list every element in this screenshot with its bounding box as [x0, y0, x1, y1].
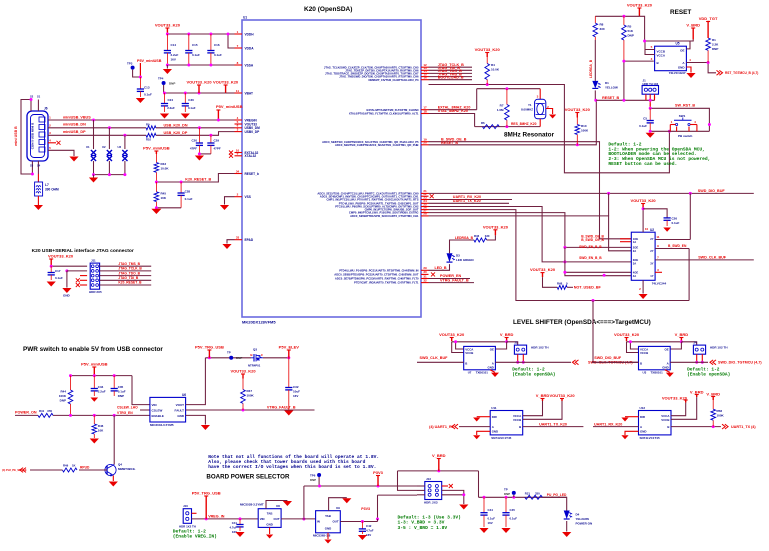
svg-text:0.1uF: 0.1uF [510, 517, 518, 521]
svg-text:390 OHM: 390 OHM [45, 188, 59, 192]
power flag VOUT33_K20 JTAG [50, 259, 52, 266]
svg-text:SN74LVC1T45: SN74LVC1T45 [640, 436, 660, 440]
svg-text:33: 33 [236, 236, 240, 240]
capacitor C20 47pF [198, 126, 201, 129]
svg-text:(Enable openSDA): (Enable openSDA) [512, 371, 555, 377]
wire U6 GND [186, 415, 206, 424]
wire top bus to U5 VCC [639, 16, 644, 41]
svg-text:1K: 1K [72, 464, 76, 468]
svg-text:HDR 1X2 TH: HDR 1X2 TH [179, 525, 196, 529]
svg-text:OE: OE [665, 347, 669, 351]
svg-text:B_SWD_OE_B: B_SWD_OE_B [581, 238, 604, 242]
connector J1 HDR TH 1X3 [642, 86, 658, 95]
wire U2 GND pin [642, 280, 644, 293]
svg-text:0.1uF: 0.1uF [672, 221, 680, 225]
svg-text:P5V_miniUSB: P5V_miniUSB [216, 104, 243, 109]
wire miniUSB_VBUS / VREGIN net [48, 119, 235, 121]
svg-text:10uF: 10uF [293, 390, 300, 394]
svg-text:16: 16 [423, 76, 427, 80]
svg-text:P5V_ELEV: P5V_ELEV [279, 345, 300, 350]
capacitor C32 10uF 16V [288, 358, 290, 388]
wire UART1_RX_K20 row [429, 199, 513, 201]
svg-text:D1: D1 [605, 81, 609, 85]
power flag VOUT33_K20 top bank [166, 28, 168, 34]
power flag P5V_miniUSB reset pullup [155, 151, 157, 154]
svg-text:4A: 4A [633, 274, 636, 278]
svg-text:DNP: DNP [236, 356, 242, 360]
ground C41 [235, 532, 244, 537]
svg-text:BOARD POWER SELECTOR: BOARD POWER SELECTOR [206, 473, 290, 480]
wire JTAG GND row [67, 270, 87, 272]
power flag P3V3 top [377, 476, 379, 487]
wire B input SWD_CLK_BUF [417, 361, 464, 363]
wire VCCA U12 [671, 403, 686, 416]
power flag VOUT33_K20 at R46 [494, 230, 496, 236]
wire TP3 to C13 [133, 70, 141, 77]
wires J13 right pins [442, 485, 448, 487]
svg-text:R48: R48 [557, 281, 563, 285]
svg-text:RESET button can be used.: RESET button can be used. [608, 161, 677, 167]
svg-text:10: 10 [645, 227, 649, 231]
svg-text:SWD_EN_B_B: SWD_EN_B_B [579, 245, 602, 249]
svg-text:C17: C17 [55, 269, 61, 273]
svg-text:VOUT33_K20: VOUT33_K20 [230, 369, 256, 374]
svg-text:CON 5 USB MINI B: CON 5 USB MINI B [31, 122, 35, 149]
wire 5V rail [205, 357, 251, 359]
svg-text:XTAL32: XTAL32 [245, 154, 257, 158]
wire VCCB drop U7 [452, 342, 464, 353]
svg-text:GND: GND [662, 365, 668, 369]
svg-text:(4) PJ2_PE_SENSE: (4) PJ2_PE_SENSE [2, 468, 27, 472]
capacitor C45 0.1uF [505, 497, 507, 512]
svg-text:VCCB: VCCB [661, 418, 669, 422]
svg-text:C32: C32 [293, 385, 299, 389]
svg-text:C16: C16 [214, 43, 220, 47]
svg-text:TP: TP [504, 488, 508, 492]
svg-text:SWD_DIO_TGTMCU (4,7): SWD_DIO_TGTMCU (4,7) [718, 361, 762, 365]
svg-text:YELLOW: YELLOW [605, 86, 618, 90]
power flag V_BRD at J13 [438, 459, 440, 471]
capacitor C15 0.1uF [188, 34, 190, 51]
svg-text:Q4: Q4 [118, 463, 122, 467]
svg-text:TXB0101: TXB0101 [651, 371, 664, 375]
svg-text:SWD_CLK_BUF: SWD_CLK_BUF [698, 256, 727, 260]
off-page RST_TGTMCU_B [717, 70, 723, 75]
wire GND pin U12 [625, 431, 639, 435]
power flag V_BRD at U5 OE [692, 28, 694, 39]
wire NMI row [429, 79, 473, 81]
svg-text:DNP: DNP [118, 394, 124, 398]
ground U7 [490, 370, 495, 373]
wire B_SWD_EN from U2 [655, 248, 689, 250]
svg-text:0.1uF: 0.1uF [639, 124, 647, 128]
capacitor C5 0.1uF [649, 108, 651, 120]
svg-text:SW_RST_B: SW_RST_B [675, 104, 695, 108]
svg-text:VOUT33_K20: VOUT33_K20 [549, 393, 575, 398]
capacitor C41 4.7uF 16V [239, 517, 242, 520]
ground U2 [639, 294, 648, 299]
svg-text:0.1uF: 0.1uF [118, 390, 126, 394]
svg-text:RESET_b: RESET_b [245, 172, 259, 176]
wire K20_RESET_B [156, 174, 234, 183]
transistor Q4 MMBT3904 [106, 466, 108, 474]
svg-text:BOOTLOAD_B: BOOTLOAD_B [438, 75, 464, 79]
wire VDD bottom bus to VSSA [167, 64, 234, 66]
svg-text:ADC0_SE5B/PTD1/SPI0_SCK/UART2_: ADC0_SE5B/PTD1/SPI0_SCK/UART2_CTS/FTM3_C… [350, 214, 419, 218]
wire SWD row 26 [429, 216, 632, 251]
svg-text:CMP1_IN1/PTC3/LLWU_P7/UART1_RX: CMP1_IN1/PTC3/LLWU_P7/UART1_RX/FTM0_CH2/… [327, 198, 419, 202]
svg-text:1-3: V_BRD = 3.3V: 1-3: V_BRD = 3.3V [398, 520, 445, 526]
wire pwr top bus [71, 375, 133, 377]
svg-text:(Enable openSDA): (Enable openSDA) [687, 371, 730, 377]
svg-text:U9: U9 [336, 506, 340, 510]
MCU right pin stubs [421, 66, 429, 68]
svg-text:LEDRGA_B: LEDRGA_B [455, 236, 474, 240]
svg-text:VOUT33_K20: VOUT33_K20 [186, 80, 212, 85]
svg-text:MK20DX128VFM5: MK20DX128VFM5 [242, 320, 276, 325]
svg-text:mini USB B: mini USB B [14, 126, 18, 146]
svg-text:2.2uF: 2.2uF [98, 390, 106, 394]
svg-text:S4: S4 [37, 164, 41, 168]
svg-text:NMI/EZP_CS/TSI0_CH4/PTA4/LLWU_: NMI/EZP_CS/TSI0_CH4/PTA4/LLWU_P3 [369, 78, 419, 82]
wire B_SWD_OE_B row [429, 142, 632, 239]
svg-text:UART1_RX_K20: UART1_RX_K20 [594, 422, 622, 426]
svg-text:4.7uF: 4.7uF [366, 529, 374, 533]
svg-text:0.1uF: 0.1uF [185, 197, 193, 201]
svg-text:16V: 16V [293, 394, 298, 398]
wire LED rail [479, 496, 567, 498]
wire U5 A output [686, 63, 716, 73]
resistor R6 on bottom bus [482, 125, 499, 129]
wire VCCA drop U7 [456, 342, 464, 349]
svg-text:VTRG_EN: VTRG_EN [117, 411, 133, 415]
wire LED anode to R46 [450, 240, 474, 253]
svg-text:GND: GND [325, 527, 331, 531]
svg-text:0.1uF: 0.1uF [188, 106, 196, 110]
svg-text:GND: GND [678, 66, 686, 70]
svg-text:JTAG_TMS_B: JTAG_TMS_B [118, 262, 140, 266]
svg-text:100K: 100K [59, 394, 67, 398]
svg-text:S3: S3 [30, 164, 34, 168]
svg-text:LEDRGA_B: LEDRGA_B [589, 59, 593, 78]
wire LED anode [594, 40, 596, 81]
wire V_BRD to jumper U3 [681, 342, 696, 345]
svg-text:2.2uF: 2.2uF [167, 106, 175, 110]
svg-text:NTR4P01: NTR4P01 [248, 364, 261, 368]
resistor R48 0 ohm NOT_USED [542, 273, 544, 278]
svg-text:GND: GND [266, 523, 272, 527]
wire U2 pin row 241.7 [620, 241, 631, 243]
test point TP4 [162, 81, 166, 85]
power flag P5V_miniUSB on VREGIN [217, 110, 219, 120]
wire EXTAL_8MHZ_K20 [429, 109, 477, 111]
wire U11 A input off-page [459, 426, 490, 428]
svg-text:HDR_2X3: HDR_2X3 [424, 501, 438, 505]
svg-text:OE: OE [680, 49, 684, 53]
ground cap bank [166, 65, 168, 69]
svg-text:28: 28 [423, 212, 427, 216]
svg-text:74LVC244: 74LVC244 [652, 282, 667, 286]
wire SWD row 25 [429, 213, 632, 248]
svg-text:V_BRD: V_BRD [675, 332, 689, 337]
svg-text:RESET_B: RESET_B [602, 96, 619, 100]
wire VBAT to pin [226, 92, 235, 94]
capacitor C26 0.1uF [666, 217, 668, 219]
resistor R7 1.0M [506, 89, 508, 105]
wire RESET_B row [429, 100, 597, 145]
power flag P5V_miniUSB pwr section [93, 367, 95, 376]
wire R46 to power [487, 235, 496, 240]
resistor R47 100K [242, 379, 244, 390]
wire long row to reset area [429, 85, 670, 173]
resistor R49 1K [62, 468, 77, 472]
svg-text:P3V3: P3V3 [373, 470, 384, 475]
connector J6 mini USB [27, 111, 48, 161]
svg-text:100K: 100K [247, 394, 255, 398]
svg-text:330: 330 [485, 234, 490, 238]
wire VCCB drop U3 [627, 342, 639, 353]
svg-text:R44: R44 [60, 390, 66, 394]
svg-text:XTAL_8MHZ_K20: XTAL_8MHZ_K20 [438, 109, 468, 113]
svg-text:K20 USB+SERIAL interface JTAG: K20 USB+SERIAL interface JTAG connector [32, 248, 134, 254]
svg-text:VTRG_FAULT_B: VTRG_FAULT_B [440, 278, 469, 282]
svg-text:0.1uF: 0.1uF [192, 53, 200, 57]
svg-text:TXB0101: TXB0101 [476, 371, 489, 375]
transistor Q3 PFET [253, 354, 255, 362]
ground resonator pin2 [546, 109, 553, 115]
svg-text:VBAT: VBAT [245, 91, 253, 95]
wire U2 1Y stub [655, 271, 662, 273]
wire miniUSB_DN / USB0_DM net [48, 127, 146, 129]
svg-text:C44: C44 [488, 508, 494, 512]
IC U9 MIC5365 box [316, 511, 341, 533]
resistor R46 330 [474, 238, 487, 242]
resistor R10 [146, 133, 156, 137]
svg-text:TAB: TAB [325, 514, 331, 518]
wire B_SWD_EN return row [429, 210, 690, 301]
svg-text:V_BRD: V_BRD [536, 393, 550, 398]
wire SWD_DIO_BUF feed [593, 301, 639, 363]
ground R46b [90, 439, 99, 444]
svg-text:(Enable VREG_IN): (Enable VREG_IN) [173, 534, 217, 540]
svg-text:10K: 10K [161, 196, 167, 200]
svg-text:R49: R49 [63, 464, 69, 468]
svg-text:J6: J6 [44, 107, 48, 111]
power flag V_BRD U11 [542, 399, 544, 402]
wire resonator left vertical [476, 89, 478, 110]
svg-text:U8: U8 [276, 504, 280, 508]
wire VDD top bus [167, 33, 234, 35]
wire U9 GND pin down [327, 533, 329, 539]
resistor R21 330 [525, 495, 543, 499]
svg-text:R9: R9 [146, 123, 150, 127]
wire jumper pins J4 [696, 354, 698, 362]
svg-text:J13: J13 [426, 477, 431, 481]
wire Q4 emitter to ground [112, 476, 114, 482]
svg-text:JTAG_TDI_B: JTAG_TDI_B [118, 276, 139, 280]
svg-text:0.1uF: 0.1uF [55, 276, 63, 280]
wire U2 pin rows bottom [565, 247, 631, 275]
wire U8 TAB to gnd [266, 501, 287, 509]
svg-text:Default: 1-3 (Use 3.3V): Default: 1-3 (Use 3.3V) [398, 515, 461, 521]
svg-text:2A: 2A [633, 249, 636, 253]
resistor R9 [146, 126, 156, 130]
svg-text:8.00MHZ: 8.00MHZ [521, 108, 533, 112]
wires J13 left pins [417, 489, 425, 491]
ground GND row [62, 288, 71, 293]
svg-text:C13: C13 [144, 86, 150, 90]
svg-text:U2: U2 [650, 228, 654, 232]
wire U9 TAB to gnd [329, 498, 347, 511]
svg-text:4.7uF: 4.7uF [229, 526, 237, 530]
svg-text:DNP: DNP [628, 34, 634, 38]
svg-text:V_BRD: V_BRD [432, 453, 446, 458]
wire miniUSB_DP / USB0_DP net [48, 134, 146, 136]
LED D3 green [447, 253, 453, 262]
svg-text:RESET: RESET [670, 9, 691, 16]
no-connect pin30 [431, 272, 435, 276]
svg-text:UART1_TX_K20: UART1_TX_K20 [539, 422, 567, 426]
wire UART1_TX_K20 row [429, 202, 510, 204]
svg-text:P5V_miniUSB: P5V_miniUSB [137, 59, 162, 63]
svg-text:FAULT: FAULT [175, 408, 185, 412]
wire VCCB U11 [523, 401, 562, 419]
capacitor C13 0.1uF [139, 77, 141, 89]
power flag VOUT33_K20 reset rail [638, 8, 640, 16]
svg-text:U3: U3 [118, 145, 122, 149]
wire jumper pins J2 [517, 354, 519, 362]
svg-text:74LVC1G07: 74LVC1G07 [669, 71, 686, 75]
wire caps common to ground [199, 153, 211, 155]
svg-text:U5: U5 [676, 42, 680, 46]
svg-text:VDDH: VDDH [245, 32, 255, 36]
svg-text:GND: GND [177, 414, 185, 418]
svg-text:3Y: 3Y [650, 261, 653, 265]
wire DIR gnd U12 [625, 416, 639, 418]
svg-text:D4: D4 [576, 513, 580, 517]
capacitor C30 0.1uF [184, 93, 186, 104]
capacitor C35 0.1uF DNP [113, 376, 115, 389]
IC U7 TXB0101 box [464, 346, 496, 369]
svg-text:VCCB: VCCB [513, 418, 521, 422]
svg-text:0.1uF: 0.1uF [144, 93, 152, 97]
wires JTAG right rows [100, 265, 152, 267]
capacitor C17 0.1uF [50, 266, 52, 272]
ground U5 GND pin [686, 67, 691, 73]
svg-text:B_SWD_EN: B_SWD_EN [668, 244, 687, 248]
resistor R10b 100K reset pullup [576, 118, 578, 125]
wire 3V3 rail to J13 [304, 485, 417, 487]
IC U6 MIC2004 box [150, 397, 186, 422]
svg-text:PB switch: PB switch [678, 134, 693, 138]
svg-text:R5: R5 [628, 25, 632, 29]
svg-text:R47: R47 [247, 389, 253, 393]
wire CSLEW row [140, 409, 150, 411]
svg-text:100K: 100K [717, 414, 725, 418]
svg-text:1A: 1A [633, 240, 636, 244]
svg-text:SWD_CLK_BUF: SWD_CLK_BUF [420, 356, 449, 360]
svg-text:R41: R41 [39, 409, 45, 413]
svg-text:2.2K: 2.2K [712, 43, 719, 47]
IC U2 74LVC244 box [631, 232, 655, 280]
svg-text:C28: C28 [185, 190, 191, 194]
svg-text:C41: C41 [232, 521, 238, 525]
capacitor C29 47pF [209, 134, 212, 137]
ground ESD diodes [93, 175, 95, 178]
wire U2 row stubs [608, 193, 610, 216]
svg-text:GND: GND [63, 294, 71, 298]
svg-text:18: 18 [423, 109, 427, 113]
svg-text:VTRG_FAULT_B: VTRG_FAULT_B [267, 406, 296, 410]
MCU left pin stubs [235, 33, 243, 35]
svg-text:VOUT33_K20: VOUT33_K20 [565, 107, 591, 112]
svg-text:C15: C15 [192, 43, 198, 47]
connector J13 HDR 2X3 [425, 482, 442, 500]
svg-text:USB_K20_DN: USB_K20_DN [164, 124, 188, 128]
svg-text:C35: C35 [118, 385, 124, 389]
svg-text:Y1: Y1 [528, 103, 532, 107]
svg-text:DNP: DNP [60, 399, 66, 403]
svg-text:16V: 16V [488, 521, 493, 525]
svg-text:VOUT33_K20: VOUT33_K20 [439, 332, 465, 337]
svg-text:miniUSB_VBUS: miniUSB_VBUS [63, 116, 91, 120]
svg-text:32: 32 [423, 278, 427, 282]
inductor L7 390 OHM [37, 174, 39, 182]
svg-text:S1: S1 [37, 95, 41, 99]
wire to LED D4 [542, 497, 566, 510]
wire A output SWD_CLK_TGTMCU [495, 361, 571, 363]
power flag VOUT33_K20 U12 [685, 400, 687, 403]
wire VCCA drop U3 [630, 342, 638, 349]
svg-text:VOUT33_K20: VOUT33_K20 [483, 224, 509, 229]
power flag VOUT33_K20 above R4 [486, 53, 488, 58]
wire LED cathode to RESET_B node [594, 90, 596, 100]
svg-text:R6: R6 [481, 121, 485, 125]
svg-text:MIC2004-0.5YM5: MIC2004-0.5YM5 [150, 423, 174, 427]
svg-text:J4: J4 [693, 341, 697, 345]
svg-text:VOUT33_K20: VOUT33_K20 [662, 396, 688, 401]
svg-text:2Y: 2Y [650, 249, 653, 253]
svg-text:UART1_TX_K20: UART1_TX_K20 [453, 199, 481, 203]
resistor R5 51K DNP [623, 16, 625, 25]
svg-text:V_BRD: V_BRD [690, 390, 704, 395]
svg-text:K20_RESET_B: K20_RESET_B [118, 281, 142, 285]
wire enable row [53, 414, 150, 416]
wire JTAG_TDI_B [429, 69, 473, 71]
svg-text:HDR TH 1X3: HDR TH 1X3 [643, 82, 659, 86]
ground C30 [181, 114, 190, 119]
test point TP5 [229, 356, 233, 360]
svg-text:J10: J10 [183, 504, 188, 508]
svg-text:VREG_IN: VREG_IN [208, 514, 225, 518]
svg-text:VDD_TGT: VDD_TGT [699, 16, 718, 21]
resistor R43 10.0K [155, 154, 157, 163]
ground C45 [501, 528, 510, 533]
svg-text:R21: R21 [525, 491, 531, 495]
wire SWD_CLK_BUF from U2 [655, 259, 754, 261]
wire U2 pin row 238.8 [620, 238, 631, 240]
wire USB shield bracket [21, 100, 32, 175]
wire pwr bus corner down to VIN [132, 376, 150, 405]
ground SW1 [646, 133, 655, 138]
resistor R41 47K [38, 413, 53, 417]
svg-text:have the correct I/O voltages: have the correct I/O voltages when this … [208, 464, 376, 470]
wire EPAD to ground [227, 240, 235, 244]
svg-text:(4) UART1_RX: (4) UART1_RX [429, 425, 455, 429]
svg-text:P5V_miniUSB: P5V_miniUSB [143, 146, 170, 151]
ground C32 [284, 411, 293, 416]
svg-text:TP6: TP6 [310, 474, 316, 478]
